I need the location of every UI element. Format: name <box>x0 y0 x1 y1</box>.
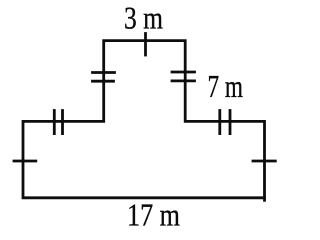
double tick mark 1, right shoulder segment <box>218 111 221 134</box>
double tick mark 2, left side of top box <box>93 80 114 83</box>
polygon outline of T-shaped figure <box>23 41 265 198</box>
double tick mark 1, right side of top box <box>172 71 195 74</box>
double tick mark 2, right shoulder segment <box>229 111 232 134</box>
single tick mark, right side of bottom rectangle <box>253 160 275 163</box>
single tick mark, left side of bottom rectangle <box>14 160 36 163</box>
double tick mark 1, left side of top box <box>93 71 115 74</box>
corner overshoot bottom-right <box>263 198 266 201</box>
svg-text:7 m: 7 m <box>208 69 244 104</box>
double tick mark 2, right side of top box <box>172 80 195 83</box>
single tick mark, top side (3 m) <box>144 34 147 56</box>
double tick mark 2, left shoulder segment <box>61 111 64 134</box>
svg-text:17 m: 17 m <box>127 198 180 233</box>
svg-text:3 m: 3 m <box>124 1 163 36</box>
double tick mark 1, left shoulder segment <box>53 111 56 134</box>
